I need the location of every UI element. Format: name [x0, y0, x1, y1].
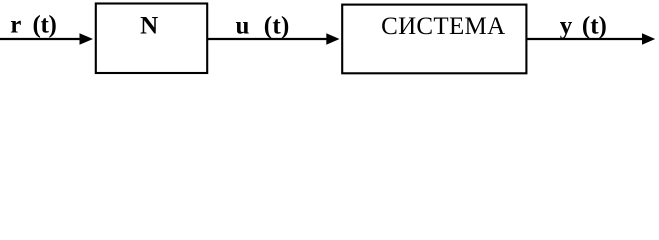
svg-text:u: u	[236, 12, 250, 39]
svg-text:(t): (t)	[33, 12, 57, 39]
svg-text:(t): (t)	[582, 12, 607, 39]
svg-text:(t): (t)	[264, 12, 290, 39]
svg-text:y: y	[560, 12, 573, 39]
svg-text:СИСТЕМА: СИСТЕМА	[381, 13, 505, 40]
svg-text:r: r	[10, 12, 21, 39]
svg-text:N: N	[140, 13, 158, 40]
